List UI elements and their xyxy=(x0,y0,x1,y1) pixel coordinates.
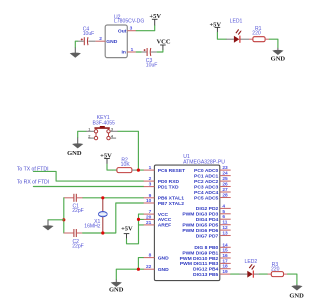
svg-text:PC0 ADC0: PC0 ADC0 xyxy=(194,168,218,174)
svg-text:3: 3 xyxy=(149,182,152,188)
wire R2 to pin1 xyxy=(136,169,143,171)
U1 pin 10 xyxy=(144,198,155,204)
wire U2 In to C3 xyxy=(136,51,141,53)
U1 pin 4 xyxy=(220,203,231,209)
svg-text:PB7 XTAL2: PB7 XTAL2 xyxy=(158,201,185,207)
wire TX to pin2 xyxy=(33,171,143,181)
supply symbol +5V (above U2) xyxy=(149,13,161,25)
supply symbol +5V (VCC rail) xyxy=(121,226,133,239)
svg-text:5: 5 xyxy=(222,209,225,215)
svg-text:25: 25 xyxy=(222,176,228,182)
U1 pin 7 xyxy=(144,209,155,215)
svg-text:PC1 ADC1: PC1 ADC1 xyxy=(194,173,218,179)
U1 pin 18 xyxy=(220,264,231,270)
wire U2 Out to +5V xyxy=(136,25,155,30)
svg-text:PWM DIG5 PD5: PWM DIG5 PD5 xyxy=(182,223,218,229)
svg-text:1: 1 xyxy=(149,165,152,171)
svg-text:15: 15 xyxy=(222,248,228,254)
svg-text:16: 16 xyxy=(222,253,228,259)
svg-text:7: 7 xyxy=(149,209,152,215)
svg-text:AVCC: AVCC xyxy=(158,217,172,223)
U1 pin 16 xyxy=(220,253,231,259)
svg-text:28: 28 xyxy=(222,193,228,199)
svg-text:PWM DIG10 PB2: PWM DIG10 PB2 xyxy=(180,256,219,262)
LED LED2 xyxy=(239,259,259,278)
U2 pin 3 Out stub xyxy=(127,26,136,32)
svg-text:DIG12 PB4: DIG12 PB4 xyxy=(193,267,219,273)
capacitor C4 10uF (polarized) xyxy=(78,26,96,45)
svg-text:DIG7 PD7: DIG7 PD7 xyxy=(196,233,219,239)
svg-text:GND: GND xyxy=(158,267,169,273)
svg-text:19: 19 xyxy=(222,269,228,275)
U1 pin 6 xyxy=(220,214,231,220)
svg-text:PWM DIG3 PD3: PWM DIG3 PD3 xyxy=(182,212,218,218)
svg-text:10uF: 10uF xyxy=(146,63,158,69)
IC U1 ATMEGA328P-PU body xyxy=(154,154,225,281)
U1 pin 14 xyxy=(220,242,231,248)
wire pin8 gnd xyxy=(138,258,143,270)
U2 pin 2 GND stub xyxy=(95,36,105,42)
net label To TX of FTDI xyxy=(17,166,49,172)
svg-text:1: 1 xyxy=(131,47,134,53)
svg-text:PC5 ADC5: PC5 ADC5 xyxy=(194,195,218,201)
svg-text:PC3 ADC3: PC3 ADC3 xyxy=(194,184,218,190)
svg-text:PC2 ADC2: PC2 ADC2 xyxy=(194,179,218,185)
U1 pin 23 xyxy=(220,165,231,171)
svg-text:L7805CV-DG: L7805CV-DG xyxy=(114,19,144,25)
wire XTAL1 row xyxy=(83,197,144,199)
U1 left pin names xyxy=(158,168,185,273)
svg-text:PWM DIG9 PB1: PWM DIG9 PB1 xyxy=(182,250,218,256)
svg-text:13: 13 xyxy=(222,231,228,237)
svg-text:ATMEGA328P-PU: ATMEGA328P-PU xyxy=(183,160,225,166)
svg-text:2: 2 xyxy=(88,134,90,139)
svg-text:To RX of FTDI: To RX of FTDI xyxy=(17,179,49,185)
svg-text:PD0 RXD: PD0 RXD xyxy=(158,179,180,185)
U1 pin 8 xyxy=(144,253,155,259)
svg-text:PWM DIG11 PB3: PWM DIG11 PB3 xyxy=(180,261,219,267)
svg-text:DIG2 PD2: DIG2 PD2 xyxy=(196,206,219,212)
wire +5V to R2 xyxy=(107,164,113,170)
svg-text:10K: 10K xyxy=(121,162,131,168)
svg-text:2: 2 xyxy=(99,36,102,42)
svg-text:3: 3 xyxy=(130,26,133,32)
svg-text:DIG 8 PB0: DIG 8 PB0 xyxy=(194,245,218,251)
svg-text:14: 14 xyxy=(222,242,228,248)
svg-text:+5V: +5V xyxy=(121,226,133,233)
LED LED1 xyxy=(226,18,249,43)
svg-text:PWM DIG6 PD6: PWM DIG6 PD6 xyxy=(182,228,218,234)
U1 pin 19 xyxy=(220,269,231,275)
ground (below pin22) xyxy=(109,280,124,294)
U1 pin 1 xyxy=(144,165,155,171)
svg-text:22: 22 xyxy=(146,264,152,270)
wire LED2 to R3 xyxy=(259,273,267,275)
svg-text:10: 10 xyxy=(146,198,152,204)
wire KEY1 pin3 down to reset node xyxy=(118,131,138,170)
wire R3 to ground xyxy=(288,274,297,284)
svg-text:26: 26 xyxy=(222,182,228,188)
wire RX to pin3 xyxy=(33,185,143,187)
wire +5V rail to pins 7 20 21 xyxy=(127,214,144,244)
svg-text:In: In xyxy=(122,50,126,56)
wire XTAL2 bottom row xyxy=(83,203,144,233)
U1 pin 24 xyxy=(220,171,231,177)
pushbutton KEY1 B3F-4055 xyxy=(86,115,118,140)
svg-text:GND: GND xyxy=(158,255,169,261)
supply symbol +5V (R2) xyxy=(100,152,112,164)
wire C3 to VCC xyxy=(157,50,163,52)
svg-text:U1: U1 xyxy=(183,154,190,160)
wire pin22 gnd xyxy=(116,269,143,279)
svg-text:GND: GND xyxy=(271,56,286,63)
wire +5V to LED1 xyxy=(217,33,226,40)
wire branch pin20 xyxy=(139,218,144,220)
net label To RX of FTDI xyxy=(17,179,49,185)
node xtal top junction xyxy=(101,196,104,199)
U1 pin 17 xyxy=(220,258,231,264)
ground (below R3) xyxy=(289,285,304,300)
voltage regulator U2 L7805CV-DG body xyxy=(105,14,144,57)
svg-text:12: 12 xyxy=(222,225,228,231)
U1 pin 20 xyxy=(144,214,155,220)
svg-text:17: 17 xyxy=(222,258,228,264)
svg-text:8: 8 xyxy=(149,253,152,259)
svg-text:Out: Out xyxy=(118,29,127,35)
svg-text:23: 23 xyxy=(222,165,228,171)
svg-text:11: 11 xyxy=(222,220,227,226)
svg-text:PB6 XTAL1: PB6 XTAL1 xyxy=(158,196,185,202)
svg-text:GND: GND xyxy=(109,287,124,294)
svg-text:2: 2 xyxy=(149,176,152,182)
svg-text:PD1 TXD: PD1 TXD xyxy=(158,184,179,190)
U1 pin 12 xyxy=(220,225,231,231)
node reset junction xyxy=(137,169,140,172)
wire branch pin21 xyxy=(139,224,144,226)
svg-text:1: 1 xyxy=(88,127,90,132)
node xtal bottom junction xyxy=(101,231,104,234)
U1 pin 9 xyxy=(144,193,155,199)
svg-text:20: 20 xyxy=(146,214,152,220)
wire R1 to ground xyxy=(269,39,278,48)
ground (left of C4) xyxy=(70,48,81,58)
U1 pin 21 xyxy=(144,220,155,226)
U1 pin 26 xyxy=(220,182,231,188)
U1 pin 5 xyxy=(220,209,231,215)
U1 pin 11 xyxy=(220,220,231,226)
node vcc rail junction xyxy=(137,218,140,221)
svg-text:3: 3 xyxy=(111,127,113,132)
resistor R1 220 xyxy=(249,26,269,42)
node xtal gnd junction xyxy=(62,218,65,221)
svg-text:6: 6 xyxy=(222,214,225,220)
supply symbol VCC xyxy=(156,38,170,49)
U1 pin 27 xyxy=(220,187,231,193)
svg-text:9: 9 xyxy=(149,193,152,199)
U2 pin 1 In stub xyxy=(127,47,136,53)
svg-text:GND: GND xyxy=(67,150,82,157)
svg-text:LED1: LED1 xyxy=(230,18,243,24)
svg-text:GND: GND xyxy=(289,293,304,300)
capacitor C1 22pF xyxy=(64,194,84,214)
U1 right pin names xyxy=(180,168,219,278)
U1 pin 13 xyxy=(220,231,231,237)
resistor R2 10K xyxy=(113,157,137,172)
U1 pin 22 xyxy=(144,264,155,270)
svg-text:PC6 RESET: PC6 RESET xyxy=(158,168,185,174)
svg-text:GND: GND xyxy=(106,39,117,45)
svg-text:DIG4 PD4: DIG4 PD4 xyxy=(196,217,219,223)
resistor R3 220 xyxy=(267,262,287,277)
svg-text:27: 27 xyxy=(222,187,228,193)
U1 pin 25 xyxy=(220,176,231,182)
wire junction to ground xyxy=(48,219,64,221)
svg-text:10uF: 10uF xyxy=(83,31,95,37)
U1 pin 2 xyxy=(144,176,155,182)
svg-text:18: 18 xyxy=(222,264,228,270)
wire left xtal rail xyxy=(63,198,65,233)
svg-text:AREF: AREF xyxy=(158,223,171,229)
svg-text:22pF: 22pF xyxy=(72,244,84,250)
ground (below KEY1) xyxy=(67,138,83,158)
wire C4 to ground xyxy=(75,41,77,47)
svg-text:VCC: VCC xyxy=(158,212,169,218)
svg-text:220: 220 xyxy=(252,31,261,37)
ground (left of C1/C2) xyxy=(42,220,53,231)
svg-text:4: 4 xyxy=(222,203,225,209)
wire KEY1 pin1 to ground xyxy=(78,131,86,137)
U1 pin 15 xyxy=(220,248,231,254)
U1 pin 28 xyxy=(220,193,231,199)
svg-text:16MHz: 16MHz xyxy=(84,223,101,229)
svg-text:24: 24 xyxy=(222,171,228,177)
ground (below R1) xyxy=(271,48,286,63)
capacitor C2 22pF xyxy=(64,229,84,250)
supply symbol +5V (LED1) xyxy=(209,21,221,32)
svg-text:VCC: VCC xyxy=(156,38,170,45)
node gnd rail junction xyxy=(137,268,140,271)
svg-text:LED2: LED2 xyxy=(245,259,258,265)
svg-text:PC4 ADC4: PC4 ADC4 xyxy=(194,190,218,196)
svg-text:21: 21 xyxy=(146,220,152,226)
crystal X1 16MHz xyxy=(84,198,107,233)
U1 pin 3 xyxy=(144,182,155,188)
svg-text:B3F-4055: B3F-4055 xyxy=(93,120,116,126)
wire pin19 to LED2 xyxy=(231,273,240,275)
capacitor C3 10uF (polarized) xyxy=(141,48,157,69)
svg-text:DIG13 PB5: DIG13 PB5 xyxy=(193,272,219,278)
svg-text:22pF: 22pF xyxy=(72,208,84,214)
